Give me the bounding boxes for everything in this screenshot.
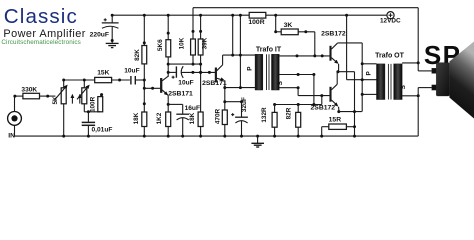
node column extra: [143, 102, 146, 105]
svg-text:470R: 470R: [214, 108, 221, 124]
svg-text:Trafo OT: Trafo OT: [375, 53, 405, 60]
node 39K line B: [199, 71, 202, 74]
resistor 15K: [95, 77, 112, 82]
transistor Q4 collector: [331, 84, 337, 90]
wire 1K2 bottom: [167, 127, 169, 137]
node bus r15r: [353, 135, 356, 138]
gang arrow 1: [71, 97, 73, 103]
node emitters join: [336, 70, 339, 73]
capacitor 10uF B: [175, 66, 177, 77]
capacitor 16uF: [176, 113, 189, 115]
svg-text:5K6: 5K6: [157, 39, 164, 51]
resistor 82K: [142, 46, 147, 64]
wire cap B left: [168, 71, 176, 73]
svg-text:100R: 100R: [90, 96, 97, 112]
svg-text:100R: 100R: [248, 19, 264, 26]
connector IN jack: [8, 112, 22, 126]
svg-text:2SB172: 2SB172: [311, 105, 336, 112]
svg-text:Circuitschematicelectronics: Circuitschematicelectronics: [1, 39, 81, 46]
resistor 3K: [281, 29, 298, 35]
svg-text:2SB171: 2SB171: [202, 80, 227, 87]
wire IT primary bottom: [225, 87, 255, 89]
svg-text:10uF: 10uF: [124, 68, 139, 75]
transformer IT secondary winding: [272, 54, 280, 90]
node sec top join: [417, 61, 420, 64]
wire 18K second bottom: [200, 127, 202, 137]
wire 15R right: [346, 126, 354, 128]
potentiometer 5K: [61, 88, 66, 104]
node 15K out: [118, 79, 121, 82]
node rail drop2 mid: [239, 54, 242, 57]
wire Q1 emitter down: [167, 95, 169, 112]
node IN corner: [13, 95, 16, 98]
node 32uF top: [240, 100, 243, 103]
node rail drop1 mid: [231, 54, 234, 57]
resistor 5K6: [166, 40, 171, 57]
node 82K rail: [143, 14, 146, 17]
node 001 top: [87, 110, 90, 113]
wire IT primary top: [223, 54, 256, 56]
svg-text:39K: 39K: [202, 37, 209, 49]
svg-text:2SB172: 2SB172: [321, 30, 346, 37]
capacitor 10uF A: [130, 76, 132, 85]
svg-text:18K: 18K: [133, 112, 140, 124]
capacitor 0,01uF: [87, 112, 89, 122]
transformer IT core: [266, 54, 268, 90]
wire pot1 top: [63, 80, 65, 88]
svg-text:82R: 82R: [285, 107, 292, 119]
wire 132R leads: [274, 105, 276, 113]
svg-text:2SB171: 2SB171: [168, 90, 193, 97]
wire collector line: [168, 63, 200, 65]
speaker terminal bottom: [432, 85, 436, 90]
wire pot2 bottom: [83, 104, 85, 112]
wire emitter to 32uF: [225, 101, 242, 103]
svg-text:1K2: 1K2: [156, 112, 163, 124]
wire sec bottom: [279, 87, 298, 89]
svg-text:S: S: [277, 80, 284, 85]
node 3K rail: [274, 14, 277, 17]
ground main: [257, 136, 259, 143]
wire OT bottom lead: [362, 93, 376, 95]
speaker cone: [449, 42, 474, 119]
wire to SP top: [418, 70, 432, 72]
node bus r18k1: [143, 135, 146, 138]
wire collector bus V2: [361, 43, 363, 112]
ground 220uF: [106, 42, 119, 44]
wire Q1 base: [144, 87, 160, 89]
node pot1 top: [62, 79, 65, 82]
wire OT top lead: [362, 63, 376, 65]
node 15R right: [353, 125, 356, 128]
wire 3K to base line: [314, 32, 316, 56]
svg-text:P: P: [365, 71, 372, 76]
svg-text:5K: 5K: [52, 96, 59, 105]
node emitter crossing: [353, 110, 356, 113]
svg-text:S: S: [400, 84, 407, 89]
svg-text:82K: 82K: [134, 49, 141, 61]
wire 15R left: [322, 126, 329, 128]
node Q1 base mid: [151, 87, 154, 90]
node sec top 1: [296, 54, 299, 57]
svg-text:330K: 330K: [21, 86, 37, 93]
resistor 82R: [296, 112, 301, 127]
svg-text:10uF: 10uF: [178, 80, 193, 87]
node sec top 3: [321, 54, 324, 57]
resistor 15R: [329, 124, 347, 129]
wire 39K top lead: [200, 15, 202, 39]
wire 330K left: [15, 95, 24, 97]
node 82R top: [297, 103, 300, 106]
wire 82K to 18K: [143, 64, 145, 112]
node 39K upper: [199, 30, 202, 33]
speaker magnet: [436, 63, 449, 96]
wire 18K bottom lead: [143, 127, 145, 137]
node supply rail: [345, 14, 348, 17]
resistor 18K first: [142, 112, 147, 127]
wire 3K drop: [275, 15, 277, 32]
node bus r15l: [320, 135, 323, 138]
wire 470R bottom: [224, 125, 226, 137]
resistor 132R: [272, 112, 277, 127]
node sec bottom: [297, 86, 300, 89]
wire IN down: [14, 125, 16, 136]
node 3K right: [304, 30, 307, 33]
node 10K upper: [192, 30, 195, 33]
node 10K bottom: [192, 63, 195, 66]
node emitter line join: [337, 110, 340, 113]
resistor 470R: [222, 110, 227, 125]
svg-text:P: P: [246, 66, 253, 71]
node bus r132: [273, 135, 276, 138]
transistor Q3 emitter: [331, 58, 337, 63]
wire feedback drop: [417, 8, 419, 71]
node 100R top: [100, 93, 103, 96]
wire emitter line lower: [339, 111, 362, 113]
node bus pot1: [62, 135, 65, 138]
transistor Q4 emitter: [331, 100, 337, 105]
wire pot2 top: [83, 80, 85, 88]
svg-text:132R: 132R: [261, 107, 268, 123]
wire 10K bottom lead: [192, 55, 194, 64]
node Q2 base: [208, 71, 211, 74]
node rail drop2 top: [239, 14, 242, 17]
supply 12VDC symbol: [387, 12, 394, 19]
resistor 100R small: [98, 97, 103, 112]
wire to SP bottom: [418, 87, 432, 89]
gang arrow 2: [79, 97, 81, 103]
wire 5K6 top lead: [167, 15, 169, 40]
node bus cap001: [87, 135, 90, 138]
wire ct line OT: [347, 79, 377, 81]
node capB line mid2: [199, 71, 202, 74]
resistor 10K: [191, 39, 196, 55]
transistor Q3 2SB172 bar: [330, 46, 332, 61]
wire IT sec top: [279, 55, 329, 57]
transformer IT primary winding: [255, 54, 263, 90]
svg-text:12VDC: 12VDC: [380, 18, 401, 25]
transistor Q2 emitter: [217, 78, 224, 80]
wire bias col join: [143, 80, 145, 88]
wire Q2 emitter down: [224, 81, 226, 111]
wire pot junction line: [84, 111, 100, 113]
wire 15K right: [112, 79, 130, 81]
wire SP bottom drop: [417, 88, 419, 137]
svg-text:15R: 15R: [329, 117, 342, 124]
svg-text:3K: 3K: [284, 22, 293, 29]
transistor Q3 collector: [331, 43, 337, 49]
wire 3K right: [298, 31, 315, 33]
wire 5K6 to collector: [167, 57, 169, 77]
wire supply drop: [346, 15, 348, 80]
node collector line A: [167, 63, 170, 66]
wire cap B right: [181, 71, 215, 73]
node ct 2: [312, 73, 315, 76]
wire base drop: [321, 96, 323, 105]
node bias1 lower: [143, 87, 146, 90]
node sec top 2: [313, 54, 316, 57]
wire 100R bottom: [99, 111, 101, 113]
wire drop to OT bottom: [354, 72, 356, 137]
node bus r470: [223, 135, 226, 138]
transistor Q1 emitter: [162, 90, 168, 95]
node ct join: [312, 103, 315, 106]
svg-text:0,01uF: 0,01uF: [92, 127, 113, 134]
wire 39K down through: [200, 55, 202, 112]
svg-text:15K: 15K: [97, 69, 109, 76]
capacitor 32uF: [241, 102, 243, 118]
svg-text:Trafo IT: Trafo IT: [256, 47, 282, 54]
wire capA right: [135, 79, 144, 81]
transistor Q1 collector: [162, 76, 168, 81]
node bus c16: [181, 135, 184, 138]
node bus r1k2: [167, 135, 170, 138]
resistor 1K2: [166, 112, 171, 127]
node Q2 emitter lower: [223, 100, 226, 103]
transformer OT secondary winding: [394, 64, 402, 100]
wire bias line: [275, 104, 322, 106]
wire feedback corner down: [192, 8, 194, 39]
node 82K top extra: [143, 41, 146, 44]
node rail drop1 top: [231, 14, 234, 17]
wire 330K right: [40, 95, 55, 97]
node 5K6 rail: [167, 14, 170, 17]
resistor 330K: [23, 93, 40, 99]
wire rail left segment: [112, 14, 249, 16]
wire Q3 emitter down: [338, 64, 340, 72]
wire rail drop 1: [232, 15, 234, 55]
node bus r82: [297, 135, 300, 138]
svg-text:16uF: 16uF: [185, 105, 200, 112]
svg-text:10K: 10K: [178, 37, 185, 49]
resistor 18K second: [198, 112, 203, 127]
node ct 1: [297, 73, 300, 76]
wire ground bus: [15, 135, 419, 137]
transistor Q2 2SB171 bar: [215, 68, 217, 83]
node Q2 emitter primary: [223, 86, 226, 89]
node rail start 220uF: [111, 14, 114, 17]
resistor 100R rail: [249, 12, 266, 18]
node 39K line A: [199, 63, 202, 66]
transformer OT primary winding: [377, 64, 385, 100]
transformer OT core: [387, 64, 389, 100]
node 132R top: [273, 103, 276, 106]
wire ct drop: [313, 75, 315, 105]
transistor Q1 2SB171 bar: [160, 78, 162, 92]
svg-text:32uF: 32uF: [241, 97, 248, 112]
speaker terminal top: [432, 68, 436, 73]
wire pot1 bottom: [63, 104, 65, 136]
node V2 ct: [361, 78, 364, 81]
wire IT center tap: [279, 74, 314, 76]
node bus gnd: [256, 135, 259, 138]
capacitor 220uF: [111, 15, 113, 23]
node bias1 upper: [143, 79, 146, 82]
potentiometer second: [82, 88, 87, 104]
node lower base junction: [320, 94, 323, 97]
wire emitter to 16uF: [168, 103, 183, 105]
node bus c32: [240, 135, 243, 138]
wire 82K top lead: [143, 15, 145, 45]
node 220uF bottom: [111, 39, 114, 42]
wire 3K left: [276, 31, 282, 33]
node collector line B: [167, 71, 170, 74]
wire input line: [64, 79, 95, 81]
wire sec bottom drop: [297, 88, 299, 96]
transistor Q2 collector: [217, 65, 223, 71]
wire OT sec top: [402, 62, 418, 64]
wire 100R top stub: [100, 94, 102, 96]
resistor 39K: [198, 39, 203, 55]
node V2 top lead: [361, 62, 364, 65]
node 5K6 top extra: [167, 32, 170, 35]
wire feedback rail: [193, 7, 418, 9]
transistor Q4 2SB172 bar: [330, 87, 332, 102]
wire rail right segment: [266, 14, 387, 16]
svg-text:18K: 18K: [189, 112, 196, 124]
wire OT sec bottom: [402, 95, 418, 97]
svg-text:220uF: 220uF: [90, 31, 109, 38]
wire IN up: [14, 96, 16, 111]
node bus r18k2: [199, 135, 202, 138]
node V2 bottom lead: [361, 93, 364, 96]
node 3K corner: [274, 30, 277, 33]
node Q1 emitter: [167, 103, 170, 106]
wire emitter cross line: [337, 71, 354, 73]
wire rail drop 2: [239, 15, 241, 87]
wire 82R leads: [297, 105, 299, 113]
node rail drop2 bot: [239, 86, 242, 89]
node pot2 top: [83, 79, 86, 82]
node 330K out: [46, 95, 49, 98]
node sec bottom join: [417, 94, 420, 97]
node 39K rail: [199, 14, 202, 17]
node capB line mid1: [191, 71, 194, 74]
svg-text:Classic: Classic: [4, 5, 78, 28]
